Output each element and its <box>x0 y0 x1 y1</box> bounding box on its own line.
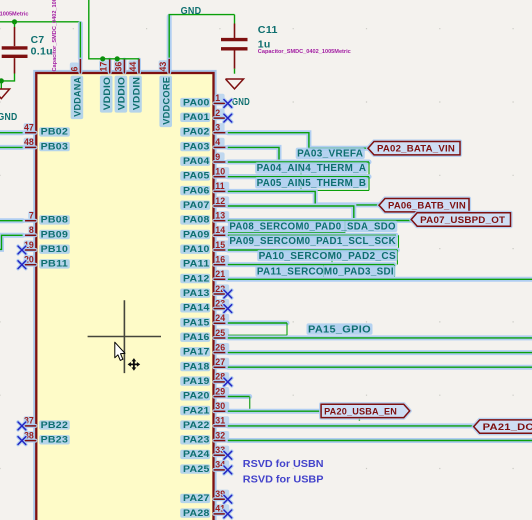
svg-text:13: 13 <box>215 211 225 221</box>
svg-text:GND: GND <box>232 97 250 108</box>
svg-text:PA07_USBPD_OT: PA07_USBPD_OT <box>420 215 505 226</box>
capacitor C11 <box>221 15 278 74</box>
svg-text:PB10: PB10 <box>41 244 69 255</box>
svg-text:PA02_BATA_VIN: PA02_BATA_VIN <box>377 144 455 155</box>
svg-text:PA21: PA21 <box>183 405 210 416</box>
wire PA07 net <box>228 206 354 220</box>
wire PA20 net <box>228 394 250 399</box>
pin 44 (VDDIN) top <box>128 59 142 113</box>
pin 41 (PA28) right <box>180 504 229 519</box>
net label PA09_SERCOM0_PAD1_SCL_SCK <box>228 235 398 247</box>
pin 12 (PA07) right <box>180 196 229 211</box>
net label PA15_GPIO <box>307 323 373 335</box>
svg-text:6: 6 <box>69 67 79 72</box>
svg-text:0.1u: 0.1u <box>31 46 53 58</box>
pin 14 (PA09) right <box>180 225 229 240</box>
no-connect X at PA25 <box>224 466 232 474</box>
svg-text:PA09_SERCOM0_PAD1_SCL_SCK: PA09_SERCOM0_PAD1_SCL_SCK <box>229 236 396 247</box>
microcontroller U (SAMD21) body <box>36 73 213 520</box>
pin 8 (PB09) left <box>23 225 70 240</box>
no-connect X at PA01 <box>224 114 232 122</box>
wire PB08 net <box>0 218 23 223</box>
svg-text:PA28: PA28 <box>183 508 210 519</box>
svg-text:PA23: PA23 <box>183 435 210 446</box>
pin 37 (PB22) left <box>23 416 70 431</box>
pin 28 (PA19) right <box>180 372 229 387</box>
svg-text:47: 47 <box>24 123 34 133</box>
svg-text:8: 8 <box>29 225 34 235</box>
pin 30 (PA21) right <box>180 401 229 416</box>
svg-text:VDDIN: VDDIN <box>131 77 142 111</box>
box around N4_THERM_A <box>228 162 369 175</box>
move tool icon <box>128 358 141 371</box>
wire PA10 net <box>228 248 398 253</box>
svg-text:PA16: PA16 <box>183 332 210 343</box>
ground symbol left (clipped) <box>0 89 10 99</box>
svg-text:PA10: PA10 <box>183 244 210 255</box>
no-connect X at PA27 <box>224 495 232 503</box>
svg-text:GND: GND <box>181 6 202 17</box>
pin 36 (VDDIO) top <box>113 59 127 113</box>
svg-text:29: 29 <box>215 386 225 396</box>
svg-text:PA15: PA15 <box>183 317 210 328</box>
net label PA05_AIN5_THERM_B <box>255 177 368 189</box>
svg-text:31: 31 <box>215 416 225 426</box>
pin 13 (PA08) right <box>180 211 229 226</box>
svg-text:10: 10 <box>215 167 225 177</box>
hierarchical label PA21_DCDC_EN (clipped) <box>474 420 532 433</box>
svg-text:PB03: PB03 <box>41 141 69 152</box>
pin 32 (PA23) right <box>180 430 229 445</box>
svg-text:48: 48 <box>24 137 34 147</box>
svg-text:PA07: PA07 <box>183 200 210 211</box>
hierarchical label PA20_USBA_EN <box>321 404 410 417</box>
svg-text:VDDIO: VDDIO <box>117 77 128 111</box>
svg-text:PA09: PA09 <box>183 229 210 240</box>
no-connect X at PB23 <box>18 437 26 445</box>
svg-text:PA00: PA00 <box>183 97 210 108</box>
no-connect X at PA28 <box>224 510 232 518</box>
svg-text:2: 2 <box>215 108 220 118</box>
editor crosshair <box>88 300 161 373</box>
pin 6 (VDDANA) top <box>69 59 83 119</box>
svg-text:VDDANA: VDDANA <box>73 77 84 117</box>
anchor tick under PA20 label <box>358 418 360 421</box>
pin 22 (PA13) right <box>180 284 229 299</box>
svg-text:25: 25 <box>215 328 225 338</box>
svg-text:PA15_GPIO: PA15_GPIO <box>308 324 371 335</box>
svg-text:PA05: PA05 <box>183 171 210 182</box>
net label PA08_SERCOM0_PAD0_SDA_SDO <box>228 221 397 233</box>
svg-text:PA02: PA02 <box>183 127 210 138</box>
no-connect X at PA00 <box>224 100 232 108</box>
wire PA08 net <box>228 218 411 223</box>
wire PA09 net <box>228 233 396 238</box>
net label PA03_VREFA <box>296 148 365 160</box>
pin 7 (PB08) left <box>23 211 70 226</box>
wire PA21 net <box>228 409 321 414</box>
pin 25 (PA16) right <box>180 328 229 343</box>
svg-text:PA05_AIN5_THERM_B: PA05_AIN5_THERM_B <box>257 178 367 189</box>
no-connect X at PA19 <box>224 378 232 386</box>
pin 3 (PA02) right <box>180 123 228 138</box>
svg-text:VDDCORE: VDDCORE <box>162 77 173 125</box>
pin 34 (PA25) right <box>180 460 229 475</box>
svg-text:PA11_SERCOM0_PAD3_SDI: PA11_SERCOM0_PAD3_SDI <box>257 266 394 277</box>
pin 9 (PA04) right <box>180 152 228 167</box>
pin 17 (VDDIO) top <box>99 59 113 113</box>
pin 38 (PB23) left <box>23 430 70 445</box>
pin 1 (PA00) right <box>180 93 228 108</box>
hierarchical label PA07_USBPD_OT <box>411 213 510 226</box>
svg-text:PA10_SERCOM0_PAD2_CS: PA10_SERCOM0_PAD2_CS <box>259 251 396 262</box>
svg-text:PA17: PA17 <box>183 347 210 358</box>
svg-text:PA04_AIN4_THERM_A: PA04_AIN4_THERM_A <box>257 163 367 174</box>
svg-text:PA21_DCDC_EN: PA21_DCDC_EN <box>483 422 532 433</box>
svg-text:PA03: PA03 <box>183 141 210 152</box>
svg-text:PA01: PA01 <box>183 112 210 123</box>
junction at C7 top <box>12 19 17 24</box>
pin 10 (PA05) right <box>180 167 229 182</box>
pin 4 (PA03) right <box>180 137 228 152</box>
svg-text:PA03_VREFA: PA03_VREFA <box>297 149 363 160</box>
net label PA10_SERCOM0_PAD2_CS <box>257 250 397 262</box>
pin 15 (PA10) right <box>180 240 229 255</box>
box around PAD2_CS label <box>332 250 397 265</box>
svg-text:PA08: PA08 <box>183 215 210 226</box>
svg-text:21: 21 <box>215 269 225 279</box>
svg-text:PA18: PA18 <box>183 361 210 372</box>
svg-text:PB22: PB22 <box>41 420 69 431</box>
svg-text:27: 27 <box>215 357 225 367</box>
svg-text:Capacitor_SMDC_0402_1005Metric: Capacitor_SMDC_0402_1005Metric <box>258 49 351 55</box>
wire PA22 net <box>228 423 474 428</box>
svg-text:RSVD for USBP: RSVD for USBP <box>243 475 324 486</box>
svg-text:14: 14 <box>215 225 225 235</box>
no-connect X at PB22 <box>18 422 26 430</box>
svg-text:PA27: PA27 <box>183 493 210 504</box>
svg-text:11: 11 <box>215 181 224 191</box>
svg-text:12: 12 <box>215 196 225 206</box>
pin 31 (PA22) right <box>180 416 229 431</box>
svg-text:16: 16 <box>215 255 225 265</box>
pin 27 (PA18) right <box>180 357 229 372</box>
svg-text:PA12: PA12 <box>183 273 210 284</box>
pin 29 (PA20) right <box>180 386 229 401</box>
svg-text:32: 32 <box>215 430 225 440</box>
svg-text:43: 43 <box>158 62 168 72</box>
wire PA11 net <box>228 262 394 267</box>
box around PA08 label <box>228 221 345 233</box>
pin 21 (PA12) right <box>180 269 229 284</box>
svg-text:PA08_SERCOM0_PAD0_SDA_SDO: PA08_SERCOM0_PAD0_SDA_SDO <box>229 222 395 233</box>
pin 11 (PA06) right <box>180 181 229 196</box>
wire PA12 net <box>228 277 532 282</box>
pin 43 (VDDCORE) top <box>158 59 172 127</box>
mouse cursor arrow <box>115 342 125 360</box>
pin 2 (PA01) right <box>180 108 228 123</box>
wire VDDANA rail from C7 to pin 6 <box>0 21 80 23</box>
svg-text:PA11: PA11 <box>183 259 210 270</box>
svg-text:PB09: PB09 <box>41 229 69 240</box>
pin 23 (PA14) right <box>180 298 229 313</box>
wire PA05 net <box>228 174 369 179</box>
svg-text:_1005Metric: _1005Metric <box>0 12 29 18</box>
wire PB03 net <box>0 145 23 150</box>
svg-text:PA13: PA13 <box>183 288 210 299</box>
svg-text:PA19: PA19 <box>183 376 210 387</box>
svg-text:VDDIO: VDDIO <box>102 77 113 111</box>
svg-text:GND: GND <box>0 112 18 123</box>
hierarchical label PA02_BATA_VIN <box>368 142 460 155</box>
svg-text:PA20_USBA_EN: PA20_USBA_EN <box>324 406 397 417</box>
svg-text:PA06_BATB_VIN: PA06_BATB_VIN <box>388 201 466 212</box>
pin 19 (PB10) left <box>23 240 70 255</box>
pin 48 (PB03) left <box>23 137 70 152</box>
ground symbol under C11 <box>226 79 244 89</box>
wire PA15 net <box>228 321 287 326</box>
svg-text:4: 4 <box>215 137 220 147</box>
svg-text:C11: C11 <box>258 24 278 36</box>
svg-text:36: 36 <box>113 62 123 72</box>
svg-text:PA24: PA24 <box>183 449 210 460</box>
box around PAD3_SDI label <box>324 265 395 278</box>
wire PB09 net <box>0 235 23 249</box>
pin 33 (PA24) right <box>180 445 229 460</box>
wire PA03 net <box>228 147 279 162</box>
wire VDDIO rail from top <box>89 0 139 59</box>
no-connect X at PB11 <box>18 261 26 269</box>
svg-text:RSVD for USBN: RSVD for USBN <box>243 459 324 470</box>
svg-text:1: 1 <box>215 93 220 103</box>
net label PA11_SERCOM0_PAD3_SDI <box>255 265 395 277</box>
box around PA09 label <box>228 235 399 248</box>
svg-text:3: 3 <box>215 123 220 133</box>
no-connect X at PA13 <box>224 290 232 298</box>
svg-text:PB11: PB11 <box>41 259 69 270</box>
pin 26 (PA17) right <box>180 342 229 357</box>
junction at GND corner left <box>0 78 4 83</box>
svg-text:PA06: PA06 <box>183 185 210 196</box>
wire PA04 net <box>228 160 369 165</box>
wire PA02 net <box>228 133 368 149</box>
hierarchical label PA06_BATB_VIN <box>379 199 469 212</box>
wire PA18 net <box>228 365 532 370</box>
svg-text:7: 7 <box>29 211 34 221</box>
svg-text:C7: C7 <box>31 34 45 46</box>
svg-text:44: 44 <box>128 62 138 72</box>
no-connect X at PA24 <box>224 451 232 459</box>
svg-text:15: 15 <box>215 240 225 250</box>
wire PB02 net <box>0 130 23 135</box>
svg-text:Capacitor_SMDC_0402_1005Me: Capacitor_SMDC_0402_1005Me <box>52 0 58 72</box>
wire PA16 net <box>228 335 532 340</box>
wire PA06 net <box>228 191 379 205</box>
pin 16 (PA11) right <box>180 255 229 270</box>
no-connect X at PA14 <box>224 305 232 313</box>
wire PA17 net <box>228 350 532 355</box>
svg-text:17: 17 <box>99 62 109 72</box>
wire PA23 net <box>228 438 532 443</box>
svg-text:PB02: PB02 <box>41 127 69 138</box>
box PA15 label bbox <box>228 323 287 335</box>
svg-text:9: 9 <box>215 152 220 162</box>
svg-text:26: 26 <box>215 342 225 352</box>
svg-text:24: 24 <box>215 313 225 323</box>
pin 20 (PB11) left <box>23 255 70 270</box>
svg-text:PB23: PB23 <box>41 435 69 446</box>
svg-text:PA25: PA25 <box>183 464 210 475</box>
net label PA04_AIN4_THERM_A <box>255 162 368 174</box>
svg-text:PA20: PA20 <box>183 391 210 402</box>
svg-text:30: 30 <box>215 401 225 411</box>
svg-text:PA14: PA14 <box>183 303 210 314</box>
capacitor C7 <box>1 22 53 89</box>
junction dots on VDDIO rail <box>100 56 105 61</box>
svg-text:PA04: PA04 <box>183 156 210 167</box>
pin 39 (PA27) right <box>180 489 229 504</box>
no-connect X at PB10 <box>18 246 26 254</box>
svg-text:PB08: PB08 <box>41 215 69 226</box>
pin 47 (PB02) left <box>23 123 70 138</box>
svg-text:PA22: PA22 <box>183 420 210 431</box>
box around N5_THERM_B <box>228 177 369 191</box>
pin 24 (PA15) right <box>180 313 229 328</box>
wire GND rail to C11 <box>167 17 172 72</box>
